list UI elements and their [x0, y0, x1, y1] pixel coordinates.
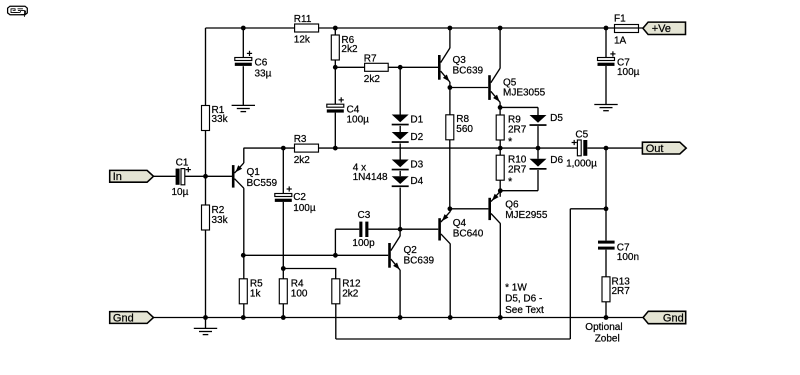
svg-text:2k2: 2k2 — [294, 155, 311, 166]
svg-text:100: 100 — [291, 289, 308, 300]
svg-text:*: * — [508, 136, 513, 148]
svg-text:D2: D2 — [410, 132, 423, 143]
svg-text:Q3: Q3 — [453, 55, 467, 66]
svg-text:Q6: Q6 — [505, 200, 519, 211]
svg-text:C6: C6 — [255, 58, 268, 69]
svg-text:100µ: 100µ — [617, 67, 640, 78]
svg-text:2R7: 2R7 — [508, 165, 527, 176]
svg-text:100µ: 100µ — [347, 115, 370, 126]
svg-text:33k: 33k — [212, 114, 229, 125]
svg-text:MJE2955: MJE2955 — [505, 210, 548, 221]
svg-text:C4: C4 — [347, 104, 360, 115]
svg-text:D1: D1 — [410, 115, 423, 126]
svg-text:R11: R11 — [294, 14, 312, 25]
svg-text:33µ: 33µ — [255, 69, 272, 80]
svg-text:2R7: 2R7 — [508, 125, 527, 136]
svg-text:C5: C5 — [575, 130, 588, 141]
svg-text:D4: D4 — [410, 176, 423, 187]
svg-text:*: * — [508, 176, 513, 188]
svg-text:* 1W: * 1W — [505, 282, 527, 293]
svg-text:1,000µ: 1,000µ — [566, 159, 597, 170]
svg-text:D5: D5 — [550, 113, 563, 124]
svg-text:R3: R3 — [294, 134, 307, 145]
svg-text:MJE3055: MJE3055 — [503, 88, 546, 99]
svg-text:+Ve: +Ve — [652, 23, 671, 35]
svg-text:See Text: See Text — [505, 305, 544, 316]
svg-text:BC640: BC640 — [453, 229, 484, 240]
svg-text:33k: 33k — [212, 215, 229, 226]
svg-text:BC559: BC559 — [247, 178, 278, 189]
svg-text:BC639: BC639 — [404, 256, 435, 267]
svg-text:1k: 1k — [250, 289, 262, 300]
svg-text:Q2: Q2 — [404, 245, 418, 256]
svg-text:D5, D6 -: D5, D6 - — [505, 294, 542, 305]
svg-text:Gnd: Gnd — [663, 312, 684, 324]
svg-text:2k2: 2k2 — [341, 44, 358, 55]
svg-text:BC639: BC639 — [453, 66, 484, 77]
svg-text:2k2: 2k2 — [342, 289, 359, 300]
svg-text:12k: 12k — [294, 35, 311, 46]
svg-text:100µ: 100µ — [293, 203, 316, 214]
svg-text:10µ: 10µ — [172, 187, 189, 198]
svg-text:Q4: Q4 — [453, 218, 467, 229]
svg-text:C3: C3 — [358, 210, 371, 221]
svg-text:Q1: Q1 — [247, 167, 261, 178]
svg-text:100n: 100n — [617, 252, 639, 263]
svg-text:R7: R7 — [364, 54, 377, 65]
svg-text:1A: 1A — [614, 35, 627, 46]
svg-text:2R7: 2R7 — [612, 286, 631, 297]
svg-text:Optional: Optional — [585, 322, 622, 333]
svg-text:D6: D6 — [550, 155, 563, 166]
svg-text:C2: C2 — [293, 192, 306, 203]
svg-text:Gnd: Gnd — [113, 312, 134, 324]
svg-text:D3: D3 — [410, 159, 423, 170]
svg-text:In: In — [113, 171, 122, 183]
svg-text:100p: 100p — [352, 238, 375, 249]
svg-text:1N4148: 1N4148 — [353, 172, 388, 183]
svg-text:F1: F1 — [614, 14, 626, 25]
svg-text:560: 560 — [456, 124, 473, 135]
svg-text:Out: Out — [646, 143, 664, 155]
svg-text:C1: C1 — [176, 158, 189, 169]
svg-text:2k2: 2k2 — [364, 74, 381, 85]
svg-text:Zobel: Zobel — [595, 333, 620, 344]
